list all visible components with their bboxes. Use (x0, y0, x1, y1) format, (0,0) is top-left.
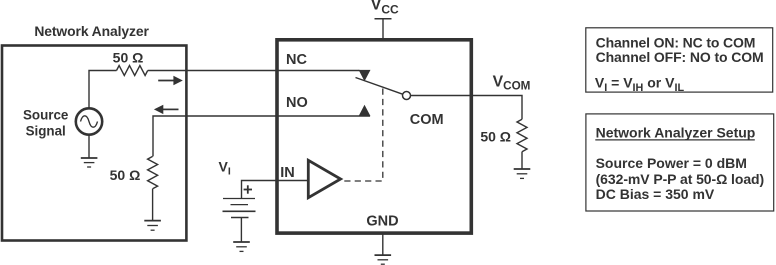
wire: source up to R1 and on to NC pin (89, 71, 117, 109)
source signal sine generator (76, 108, 102, 134)
buffer/driver triangle (308, 160, 340, 197)
svg-text:Network Analyzer: Network Analyzer (34, 23, 149, 39)
svg-text:Source Power = 0 dBM: Source Power = 0 dBM (596, 155, 747, 171)
svg-text:50 Ω: 50 Ω (113, 49, 144, 65)
wire battery to ground (240, 218, 242, 243)
ground (under R3) (514, 169, 531, 178)
switch pole circle (403, 92, 411, 100)
battery VI plus sign (244, 185, 252, 193)
wire R3 to ground (521, 152, 523, 169)
signal direction arrow (right) (158, 76, 183, 85)
resistor R2 50 ohm (shunt, vertical) (148, 156, 158, 188)
svg-text:DC Bias = 350 mV: DC Bias = 350 mV (596, 186, 715, 202)
svg-text:Channel ON: NC to COM: Channel ON: NC to COM (596, 34, 756, 50)
COM wire out to load (411, 96, 523, 120)
svg-text:IN: IN (280, 165, 295, 181)
VCC supply stub (375, 19, 392, 40)
NO contact triangle (359, 105, 371, 116)
svg-text:50 Ω: 50 Ω (110, 167, 141, 183)
note box 1 (586, 28, 773, 92)
svg-text:COM: COM (410, 112, 444, 128)
svg-text:NO: NO (286, 95, 308, 111)
wire R2 to ground (152, 189, 154, 221)
left box: Network Analyzer enclosure (2, 46, 186, 241)
svg-text:Signal: Signal (26, 123, 66, 138)
NC contact triangle (359, 70, 371, 81)
svg-text:Source: Source (23, 107, 68, 122)
wire VI to IN buffer input (242, 181, 309, 199)
underline for note title (595, 139, 755, 141)
svg-text:50 Ω: 50 Ω (480, 129, 511, 145)
ground (under GND pin) (375, 255, 392, 264)
svg-text:Network Analyzer Setup: Network Analyzer Setup (596, 124, 756, 140)
svg-text:GND: GND (366, 213, 398, 229)
svg-text:Channel OFF: NO to COM: Channel OFF: NO to COM (596, 49, 764, 65)
ground (under R2) (144, 221, 161, 231)
wire NO pin to R2 (153, 116, 370, 156)
dashed control line from buffer to switch (341, 89, 383, 182)
wire source to ground (88, 135, 90, 158)
switch blade (356, 78, 403, 95)
note box 2 (586, 114, 774, 211)
battery VI plates (223, 199, 256, 218)
ground (under battery) (233, 242, 250, 251)
svg-text:NC: NC (286, 52, 307, 68)
ground (under source) (81, 158, 98, 167)
resistor R3 50 ohm (load, vertical) (517, 119, 527, 151)
signal direction arrow (left) (154, 105, 179, 114)
svg-text:(632-mV P-P at 50-Ω load): (632-mV P-P at 50-Ω load) (596, 171, 765, 187)
resistor R1 50 ohm (series, horizontal) (117, 66, 148, 76)
analog switch IC box (277, 40, 471, 233)
wire R1 to NC contact (148, 70, 360, 72)
GND pin stub (382, 233, 384, 255)
